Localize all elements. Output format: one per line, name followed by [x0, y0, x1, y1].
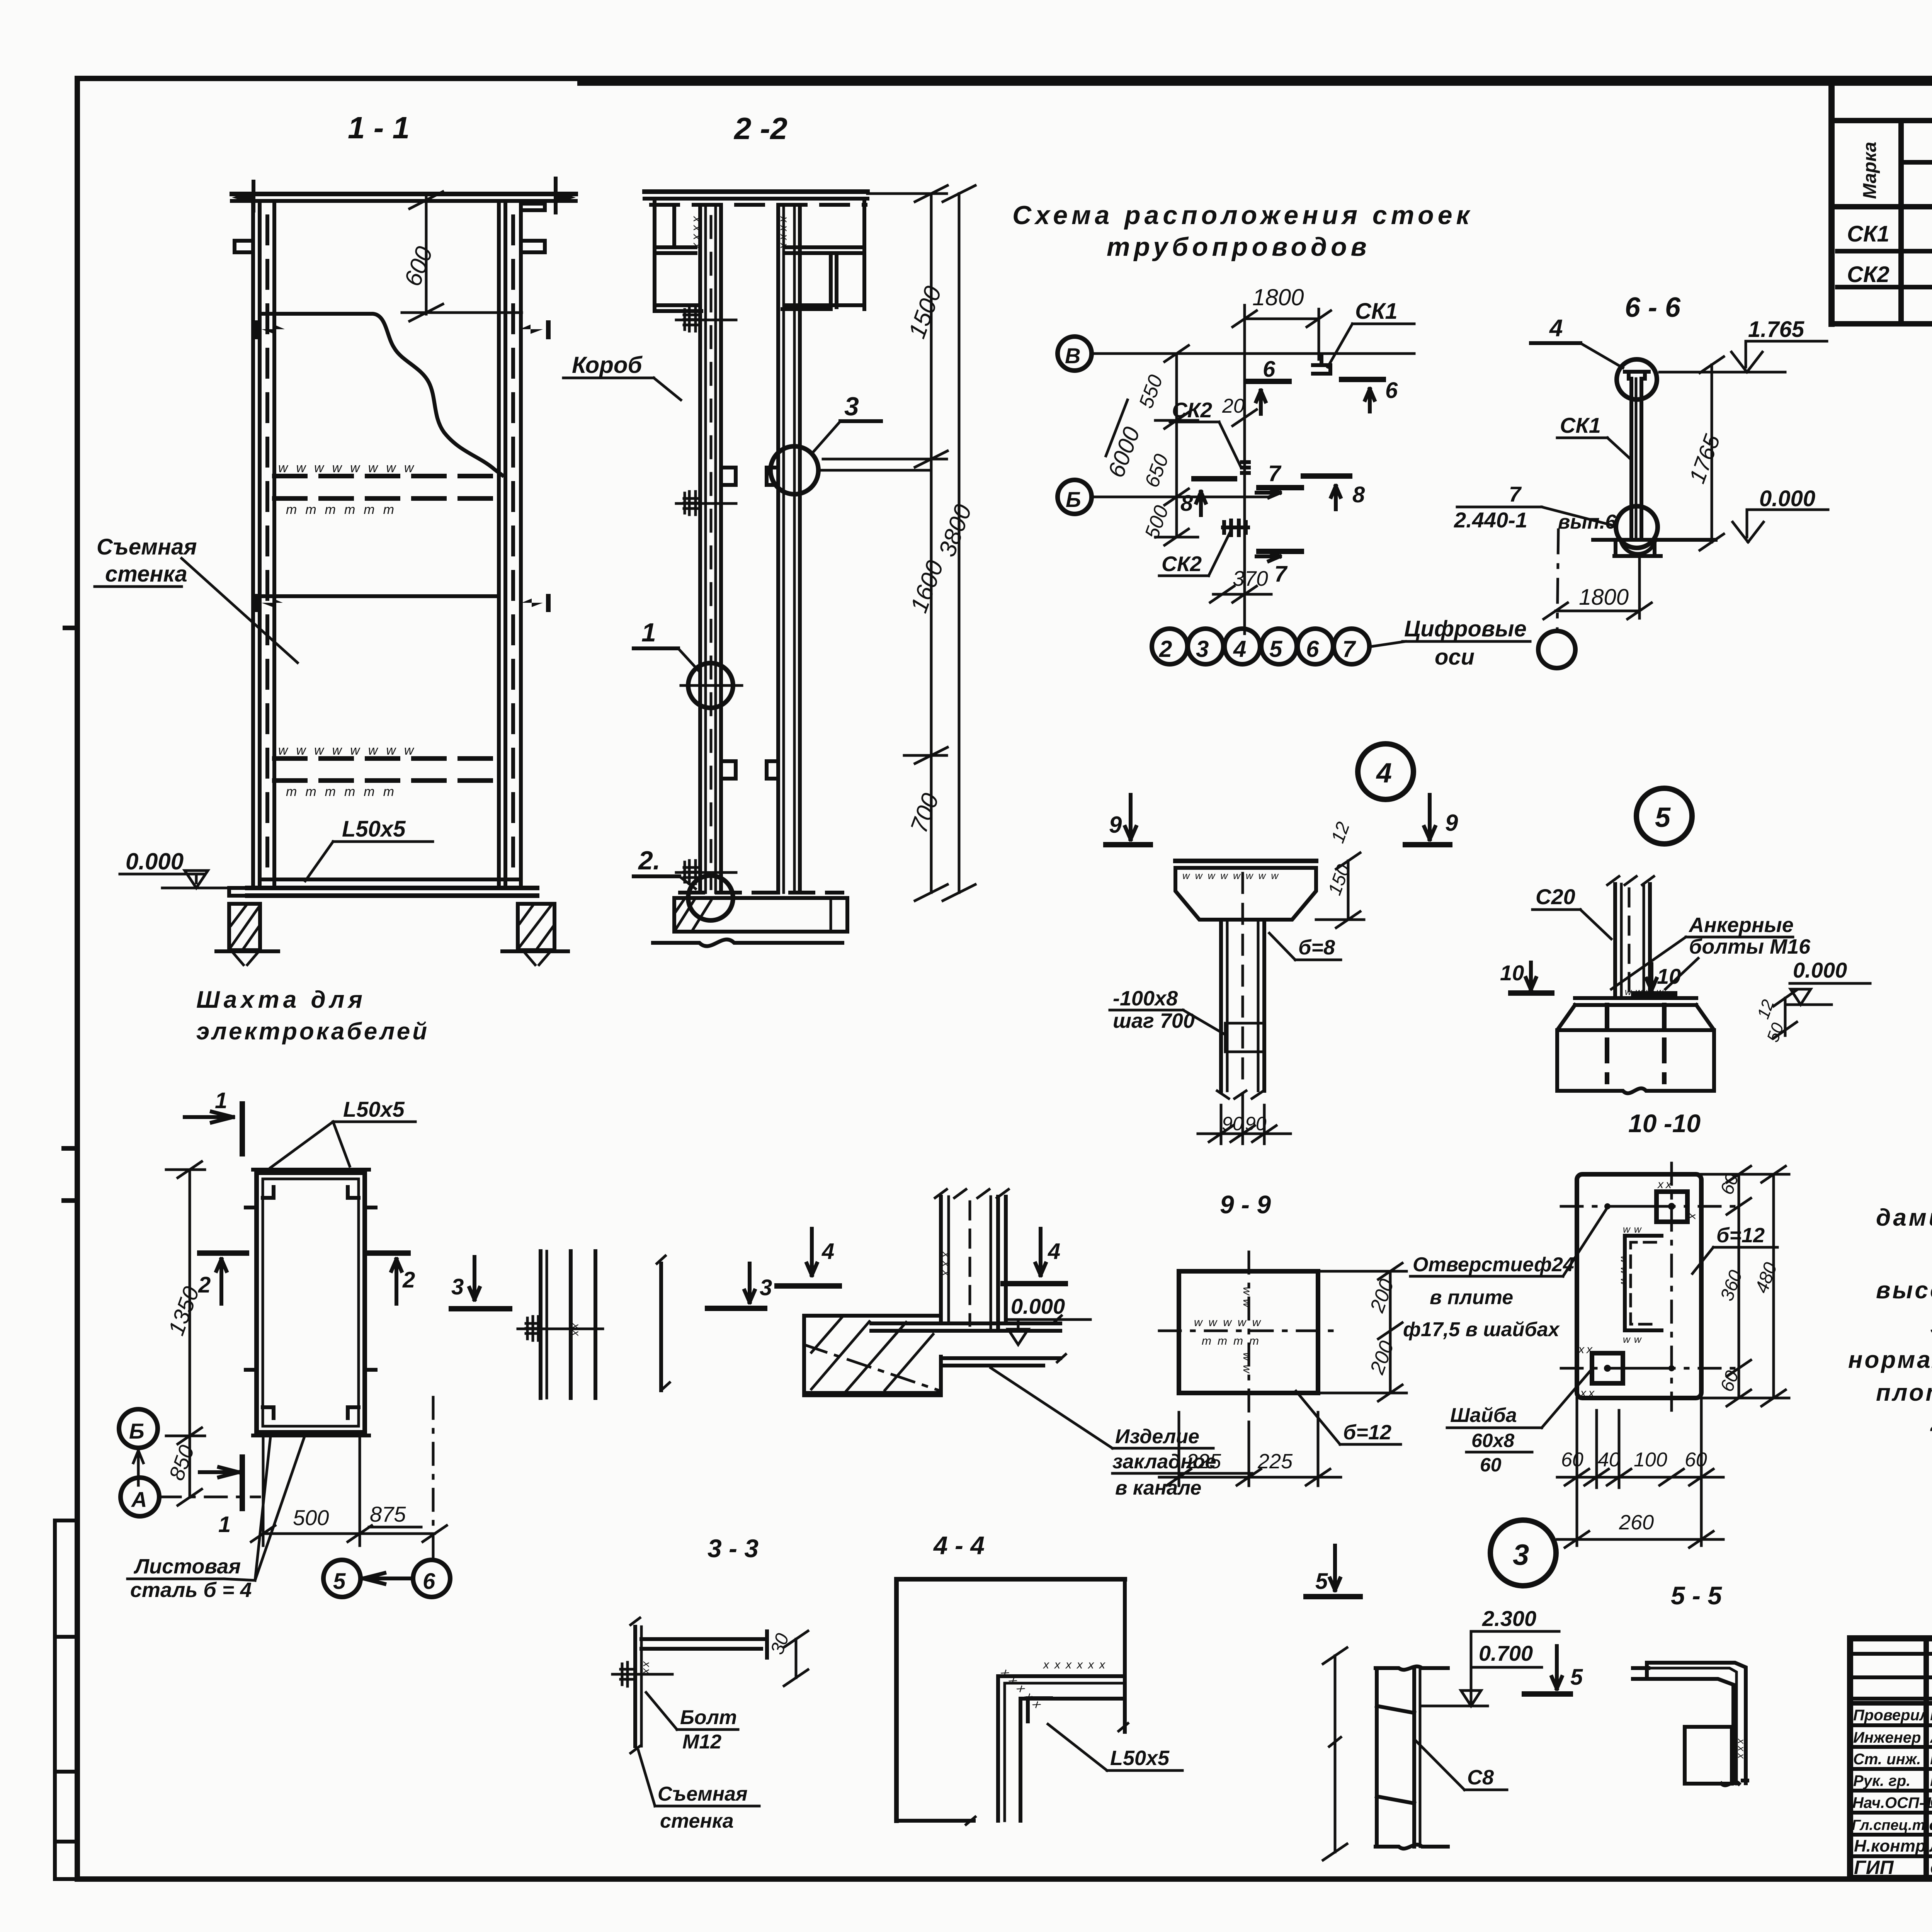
bottom-left plan: dims 500 875 — [251, 1435, 447, 1546]
detail 4 dim 90 90 — [1198, 1094, 1291, 1144]
svg-text:5: 5 — [1315, 1569, 1328, 1594]
svg-text:500: 500 — [293, 1505, 329, 1530]
svg-text:Съемная: Съемная — [658, 1783, 748, 1805]
label s'emnaya stenka bottom — [638, 1750, 759, 1832]
svg-text:нормальной точности и сварке: нормальной точности и сварке, согласно у… — [1848, 1347, 1932, 1373]
svg-text:4: 4 — [1048, 1239, 1060, 1264]
section 2-2 base — [653, 893, 847, 946]
circles 5 6 with arrow — [323, 1560, 450, 1597]
svg-text:Проверил: Проверил — [1853, 1707, 1929, 1724]
svg-text:дами Э42 по ГОСТ 9467 - 75.: дами Э42 по ГОСТ 9467 - 75. — [1876, 1204, 1932, 1231]
svg-text:wwwwwwww: wwwwwwww — [1182, 870, 1284, 881]
schema title — [1012, 201, 1473, 262]
svg-text:40: 40 — [1598, 1449, 1620, 1471]
schema plan: axis V — [1058, 337, 1414, 371]
svg-text:0.000: 0.000 — [126, 849, 184, 874]
svg-text:Марка: Марка — [1860, 142, 1880, 199]
schema mark 8 left — [1180, 479, 1235, 516]
svg-text:трубопроводов: трубопроводов — [1107, 232, 1371, 262]
schema mark 7 lower — [1257, 551, 1301, 587]
svg-text:3: 3 — [760, 1275, 772, 1300]
section 6-6 CK1 label — [1557, 413, 1631, 460]
signature rows — [1850, 1723, 1932, 1727]
svg-text:Нач.ОСП-1: Нач.ОСП-1 — [1852, 1794, 1932, 1811]
svg-text:3: 3 — [451, 1274, 464, 1299]
svg-text:370: 370 — [1233, 566, 1268, 590]
svg-text:xxx: xxx — [1736, 1738, 1747, 1761]
svg-text:mmmmmm: mmmmmm — [286, 784, 403, 799]
bottom-left plan: axis circles B and A — [119, 1409, 260, 1516]
svg-text:5 - 5: 5 - 5 — [1671, 1581, 1722, 1610]
svg-text:ww: ww — [1623, 1333, 1645, 1345]
embedded channel dashed C — [1625, 1236, 1662, 1330]
svg-text:mmmm: mmmm — [1202, 1335, 1265, 1347]
svg-text:Гл.спец.т.о: Гл.спец.т.о — [1852, 1817, 1932, 1833]
section 2-2 bolts on left post — [676, 308, 736, 884]
svg-text:Ст. инж.: Ст. инж. — [1853, 1751, 1921, 1768]
detail 5 column C20 — [1607, 876, 1667, 998]
detail 3 wall and channel C8 — [1323, 1648, 1448, 1860]
detail 2 mark 4 right and 0.000 — [1003, 1229, 1090, 1345]
svg-text:4 - 4: 4 - 4 — [933, 1531, 985, 1560]
svg-text:М12: М12 — [682, 1731, 721, 1753]
schema dim 370 — [1210, 566, 1271, 602]
svg-text:Съемная: Съемная — [97, 534, 197, 560]
section 1-1 cable shelf band upper — [274, 461, 499, 517]
svg-text:1: 1 — [218, 1512, 231, 1537]
svg-text:Болт: Болт — [680, 1706, 737, 1729]
svg-text:7: 7 — [1268, 461, 1282, 486]
table header grid — [1837, 118, 1932, 123]
svg-text:Б: Б — [129, 1419, 145, 1443]
svg-text:Схема расположения стоек: Схема расположения стоек — [1012, 201, 1473, 230]
schema mark 8 right — [1303, 476, 1365, 509]
svg-text:100: 100 — [1634, 1449, 1667, 1471]
svg-text:1 - 1: 1 - 1 — [348, 111, 410, 145]
detail 3 elevations 2.300 0.700 — [1420, 1606, 1559, 1706]
svg-text:4: 4 — [1549, 315, 1563, 342]
svg-text:10 -10: 10 -10 — [1628, 1109, 1701, 1138]
schema CK2 lower mark — [1159, 520, 1248, 576]
section mark 10 left — [1500, 961, 1552, 993]
svg-text:ww: ww — [1623, 1223, 1645, 1235]
signature table columns — [1923, 1638, 1929, 1878]
detail 2 column — [935, 1189, 1009, 1331]
bottom-left plan: section mark 3 — [451, 1257, 510, 1309]
section mark 10 right — [1634, 964, 1681, 994]
detail 3 mark 5 right — [1524, 1646, 1583, 1694]
svg-text:260: 260 — [1619, 1511, 1654, 1534]
svg-text:xx: xx — [1578, 1343, 1595, 1356]
svg-text:Макарова: Макарова — [1930, 1749, 1932, 1768]
svg-text:в канале: в канале — [1115, 1477, 1201, 1499]
svg-text:СК1: СК1 — [1560, 413, 1601, 437]
detail 1 mark 3 — [707, 1264, 772, 1308]
section 1-1 left wall — [235, 201, 274, 885]
section 6-6 elevation 0.000 — [1733, 486, 1828, 542]
svg-text:Б: Б — [1066, 487, 1081, 512]
svg-text:2: 2 — [402, 1267, 415, 1293]
svg-text:СК1: СК1 — [1355, 299, 1398, 324]
svg-text:1.765: 1.765 — [1748, 317, 1804, 342]
section 6-6 post with top bolt circle — [1617, 359, 1657, 537]
section 2-2 dim chain 1500/1600/700 — [823, 185, 949, 901]
svg-text:4: 4 — [821, 1239, 834, 1264]
label otverstie f24 — [1403, 1209, 1607, 1341]
svg-text:б=12: б=12 — [1716, 1224, 1765, 1247]
tsifrovye osi label left — [1372, 616, 1530, 670]
detail 5 C20 label — [1532, 884, 1611, 939]
svg-text:В: В — [1065, 344, 1080, 368]
svg-text:0.000: 0.000 — [1759, 486, 1815, 511]
section 4-4 corner detail — [896, 1579, 1128, 1825]
detail 4 label b=8 — [1269, 933, 1341, 960]
label listovaya stal b=4 — [128, 1434, 305, 1602]
detail 2: mark 4 left — [777, 1229, 839, 1286]
svg-text:10: 10 — [1500, 961, 1524, 985]
svg-text:3: 3 — [844, 392, 859, 421]
label removable wall (s'emnaya stenka) — [95, 534, 298, 663]
section 1-1 elevation 0.000 — [120, 849, 240, 888]
detail circle 3 callout — [770, 392, 931, 494]
svg-text:6: 6 — [1385, 378, 1398, 403]
svg-text:8: 8 — [1352, 482, 1365, 507]
svg-text:wwwwwwww: wwwwwwww — [278, 743, 422, 758]
svg-text:электрокабелей: электрокабелей — [196, 1018, 429, 1045]
detail 3 mark 5 left — [1306, 1546, 1360, 1597]
section 1-1 dim 600 — [399, 192, 522, 321]
detail 5 ankernye bolty M16 — [1611, 913, 1811, 989]
svg-text:1800: 1800 — [1252, 284, 1304, 310]
section 1-1 base angle L50x5 label — [305, 816, 433, 881]
svg-text:Андреева: Андреева — [1930, 1728, 1932, 1747]
svg-text:xx: xx — [1657, 1178, 1674, 1191]
svg-text:xx: xx — [570, 1323, 582, 1337]
label C8 — [1416, 1741, 1507, 1790]
notes text block — [1848, 1169, 1932, 1472]
svg-text:wwwwwwww: wwwwwwww — [278, 461, 422, 475]
svg-text:xxx: xxx — [940, 1251, 952, 1280]
svg-text:L50х5: L50х5 — [343, 1097, 405, 1121]
svg-text:оси: оси — [1435, 645, 1475, 670]
svg-text:Шайба: Шайба — [1450, 1404, 1517, 1427]
section 1-1 cable shelf band lower — [274, 743, 499, 799]
detail 4 label -100x8 shag 700 — [1110, 987, 1224, 1034]
vedomost table: outer box — [1832, 82, 1932, 324]
svg-text:0.000: 0.000 — [1011, 1294, 1065, 1318]
svg-text:2 -2: 2 -2 — [733, 111, 787, 146]
schema left dim chain 550 650 500 6000 — [1103, 345, 1198, 545]
bottom-left plan: shaft outline — [246, 1170, 376, 1435]
section 1-1 shelf break line — [261, 314, 502, 475]
signature table top rows — [1850, 1652, 1932, 1656]
svg-text:Моргунов: Моргунов — [1930, 1771, 1932, 1790]
label shayba 60x8/60 — [1447, 1370, 1591, 1476]
section 1-1 foundations hatched — [216, 904, 568, 965]
svg-text:mmmmmm: mmmmmm — [286, 502, 403, 517]
svg-text:плотно затянуть, нарезку ра: плотно затянуть, нарезку расчеканить. — [1876, 1379, 1932, 1406]
svg-text:Шахта для: Шахта для — [196, 986, 366, 1013]
section 2-2 right post — [778, 205, 800, 893]
svg-text:60: 60 — [1685, 1449, 1707, 1471]
detail circle 1 callout — [634, 618, 742, 708]
bottom-left plan: section marks 2 — [198, 1253, 415, 1304]
label bolt M12 — [646, 1692, 738, 1753]
svg-text:б=12: б=12 — [1343, 1421, 1391, 1444]
schema dim 1800 top — [1233, 284, 1331, 359]
svg-text:закладное: закладное — [1112, 1451, 1216, 1473]
svg-text:xx: xx — [641, 1661, 653, 1675]
detail circle 4 — [1358, 744, 1413, 799]
plate 9-9 dims 200 200 — [1318, 1263, 1406, 1401]
schema section mark 6 right — [1342, 378, 1398, 412]
svg-text:ww: ww — [1241, 1352, 1253, 1377]
svg-text:стенка: стенка — [105, 561, 187, 587]
svg-text:www: www — [1619, 1256, 1630, 1289]
svg-text:2.440-1: 2.440-1 — [1454, 508, 1527, 532]
svg-text:6: 6 — [1263, 357, 1276, 382]
label shaft for electric cables — [196, 986, 429, 1045]
svg-text:1800: 1800 — [1579, 585, 1629, 610]
anchor plate label b=12 — [1692, 1224, 1777, 1274]
detail circle 3 — [1490, 1520, 1556, 1586]
anchor plate with holes (260x480) — [1561, 1163, 1743, 1410]
svg-text:3 - 3: 3 - 3 — [707, 1534, 759, 1563]
anchor plate right dims 60 360 60 480 — [1701, 1166, 1789, 1406]
left frame tick marks — [64, 628, 77, 1201]
svg-text:СК2: СК2 — [1847, 262, 1889, 287]
section 5-5 detail — [1633, 1663, 1747, 1785]
svg-text:2: 2 — [198, 1272, 211, 1298]
detail 2 concrete block — [804, 1316, 1066, 1395]
top bolt square — [1656, 1192, 1687, 1222]
svg-text:wwwww: wwwww — [1194, 1316, 1267, 1329]
svg-text:20: 20 — [1222, 395, 1245, 417]
plate 9-9 label b=12 — [1296, 1391, 1401, 1444]
svg-text:СК1: СК1 — [1847, 221, 1889, 247]
detail circle 2 callout — [634, 846, 733, 920]
section 1-1 weld arrows at walls — [256, 323, 548, 337]
schema mark 7 upper — [1257, 461, 1301, 497]
svg-text:Листовая: Листовая — [133, 1555, 241, 1578]
detail circle 5 — [1636, 788, 1692, 844]
section 6-6 dim 1765 — [1684, 357, 1725, 550]
svg-text:xx: xx — [1580, 1387, 1597, 1400]
svg-text:L50х5: L50х5 — [342, 816, 406, 842]
svg-text:Короб: Короб — [572, 352, 643, 378]
svg-text:Н.контр: Н.контр — [1854, 1837, 1926, 1855]
section 6-6 label 7 / 2.440-1 vyp.6 — [1454, 482, 1617, 533]
section 1-1 mid removable wall line — [260, 594, 499, 598]
svg-text:Саакьянц: Саакьянц — [1930, 1793, 1932, 1812]
section 1-1 right wall — [499, 201, 545, 885]
bottom-left plan: L50x5 top label — [270, 1097, 415, 1168]
section 2-2 dim 3800 — [934, 185, 977, 901]
svg-text:болты М16: болты М16 — [1689, 935, 1811, 958]
plate 9-9 dims 225 225 — [1159, 1412, 1341, 1486]
svg-text:-100х8: -100х8 — [1113, 987, 1178, 1010]
svg-text:3. Монтаж конструкций произв: 3. Монтаж конструкций производить на бол… — [1930, 1313, 1932, 1339]
section 1-1 top beam — [232, 179, 576, 213]
svg-text:ф17,5 в шайбах: ф17,5 в шайбах — [1403, 1318, 1560, 1341]
svg-text:в плите: в плите — [1430, 1286, 1513, 1309]
svg-text:высотой hш = 4мм, остальные: высотой hш = 4мм, остальные конструкции … — [1876, 1277, 1932, 1304]
svg-text:2: 2 — [1159, 636, 1172, 662]
schema section mark 6 left — [1248, 357, 1289, 414]
svg-text:Рук. гр.: Рук. гр. — [1853, 1772, 1910, 1789]
section mark 9 left — [1106, 795, 1150, 845]
schema plan: vertical axis line — [1243, 305, 1246, 634]
schema plan: axis B (lower) — [1058, 480, 1267, 514]
detail 4 dims 12 150 — [1316, 819, 1364, 928]
svg-text:1: 1 — [215, 1088, 227, 1113]
section 6-6 bottom bolt circle and base — [1593, 506, 1716, 556]
svg-text:С20: С20 — [1536, 884, 1575, 909]
detail 5 elevation 0.000 and 50 12 — [1753, 958, 1870, 1044]
section 1-1 bottom floor — [229, 879, 537, 896]
section 6-6 elevation 1.765 — [1660, 317, 1827, 372]
svg-text:90: 90 — [1245, 1113, 1267, 1134]
svg-text:4: 4 — [1376, 758, 1392, 789]
section 1-1 weld arrows mid — [256, 596, 548, 610]
section 6-6 callout 4 — [1531, 315, 1623, 368]
svg-text:0.700: 0.700 — [1479, 1641, 1533, 1665]
schema numbered axis circles 2-7 — [1152, 629, 1369, 664]
svg-text:ww: ww — [1241, 1287, 1253, 1311]
bottom-left plan: section mark 1 top — [185, 1088, 242, 1154]
svg-text:xxxxxx: xxxxxx — [1043, 1658, 1111, 1671]
svg-text:СК2: СК2 — [1162, 552, 1202, 576]
title block outer — [1850, 1638, 1932, 1879]
bottom-left plan: vertical axis dash line — [432, 1397, 435, 1561]
svg-text:225: 225 — [1257, 1450, 1293, 1473]
svg-text:А: А — [131, 1487, 147, 1512]
svg-text:10: 10 — [1657, 964, 1681, 988]
svg-text:L50х5: L50х5 — [1110, 1747, 1170, 1770]
svg-text:Осташевский: Осташевский — [1930, 1861, 1932, 1878]
svg-text:60: 60 — [1480, 1454, 1502, 1476]
svg-text:x: x — [1687, 1213, 1699, 1221]
schema CK2 upper label — [1170, 395, 1257, 473]
svg-text:7: 7 — [1274, 561, 1288, 587]
section 2-2 top duct assembly — [645, 192, 867, 311]
schema CK1 label — [1313, 299, 1414, 374]
bottom-left plan: dim 1350 850 — [163, 1162, 205, 1505]
svg-text:сталь б = 4: сталь б = 4 — [130, 1578, 252, 1602]
signature texts — [1852, 1705, 1932, 1878]
svg-text:9: 9 — [1109, 812, 1122, 838]
svg-text:0.000: 0.000 — [1793, 958, 1847, 982]
svg-text:5: 5 — [333, 1569, 346, 1594]
svg-text:60х8: 60х8 — [1471, 1430, 1514, 1451]
korob label — [563, 352, 681, 400]
svg-text:Изделие: Изделие — [1115, 1425, 1199, 1448]
section mark 9 right — [1405, 795, 1458, 845]
svg-text:5: 5 — [1570, 1665, 1583, 1690]
svg-text:Боярченко: Боярченко — [1930, 1815, 1932, 1834]
svg-text:б=8: б=8 — [1298, 936, 1335, 959]
bottom bolt square — [1592, 1353, 1623, 1383]
left margin fold strip — [55, 1520, 77, 1879]
svg-text:ГИП: ГИП — [1854, 1857, 1894, 1878]
svg-text:3: 3 — [1196, 636, 1209, 662]
detail 5 base and pedestal — [1557, 998, 1714, 1093]
svg-text:6: 6 — [423, 1569, 435, 1594]
anchor plate bottom dims 60 40 100 60 260 — [1557, 1398, 1723, 1548]
plate 9-9 (225x225) — [1159, 1252, 1337, 1412]
svg-text:Анкерные: Анкерные — [1688, 913, 1794, 937]
svg-text:7: 7 — [1509, 482, 1522, 506]
bottom-left plan: section mark 1 bottom — [200, 1457, 242, 1537]
svg-text:6 - 6: 6 - 6 — [1625, 292, 1681, 323]
svg-text:5: 5 — [1269, 636, 1283, 662]
svg-text:1: 1 — [641, 618, 656, 647]
svg-text:3: 3 — [1513, 1539, 1529, 1571]
svg-text:9: 9 — [1445, 810, 1458, 836]
label izdelie zakladnoe v kanale — [991, 1368, 1252, 1499]
svg-text:шаг 700: шаг 700 — [1113, 1009, 1195, 1032]
detail 4 column with cap plate — [1175, 861, 1316, 1099]
svg-text:7: 7 — [1342, 636, 1356, 662]
svg-text:90: 90 — [1222, 1113, 1243, 1134]
section 2-2 clip brackets — [721, 468, 778, 779]
section 3-3 detail — [612, 1618, 808, 1753]
svg-text:Макарова: Макарова — [1930, 1705, 1932, 1724]
svg-text:5: 5 — [1655, 802, 1671, 833]
svg-text:2.: 2. — [638, 846, 660, 875]
svg-text:9 - 9: 9 - 9 — [1220, 1190, 1271, 1219]
svg-text:6: 6 — [1306, 636, 1319, 662]
svg-text:стенка: стенка — [660, 1810, 734, 1832]
label L50x5 in 4-4 — [1048, 1724, 1182, 1770]
svg-text:С8: С8 — [1467, 1766, 1494, 1789]
svg-text:2.300: 2.300 — [1482, 1606, 1536, 1631]
svg-text:Цифровые: Цифровые — [1404, 616, 1527, 641]
svg-text:4: 4 — [1233, 636, 1246, 662]
detail 1 wall with bolt — [518, 1251, 670, 1398]
svg-text:Отверстиеф24: Отверстиеф24 — [1413, 1253, 1574, 1276]
svg-text:60: 60 — [1561, 1449, 1583, 1471]
svg-text:Инженер: Инженер — [1853, 1729, 1921, 1746]
section 2-2 left post — [700, 205, 721, 893]
section 6-6 axis line and dim 1800 — [1538, 530, 1651, 668]
svg-text:875: 875 — [370, 1502, 406, 1526]
